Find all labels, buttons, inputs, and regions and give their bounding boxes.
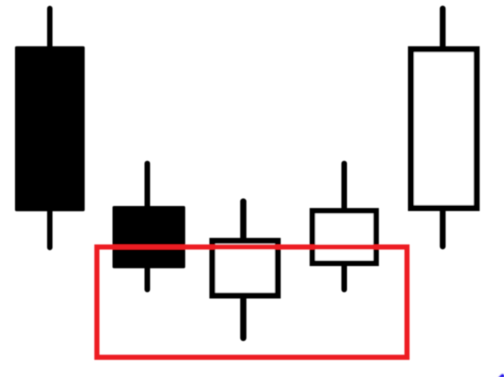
red highlight rectangle (97, 247, 407, 357)
candle 5 body (411, 49, 477, 208)
candle 4 body (312, 211, 376, 263)
candle 3 (small bullish, hollow white) wick (240, 202, 246, 339)
blue corner mark (498, 374, 504, 377)
candle 1 body (15, 46, 85, 211)
candle 2 (small bearish, filled black) wick (145, 164, 151, 290)
candle 4 (small bullish, hollow white) wick (341, 164, 347, 290)
candle 1 (tall bearish, filled black) wick (47, 9, 52, 248)
candle 5 (tall bullish, hollow white) wick (440, 9, 446, 247)
candle 3 body (212, 241, 277, 296)
candle 2 body (113, 206, 186, 268)
